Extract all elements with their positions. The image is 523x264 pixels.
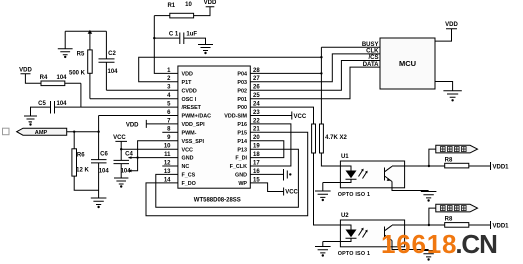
svg-text:16618.CN: 16618.CN (381, 229, 497, 259)
svg-text:VDD1: VDD1 (493, 164, 510, 170)
svg-text:C4: C4 (125, 152, 133, 158)
LED arrows U1 (359, 169, 368, 179)
svg-text:VDD: VDD (182, 72, 193, 78)
svg-text:10: 10 (164, 144, 171, 150)
svg-text:WT588D08-28SS: WT588D08-28SS (194, 198, 241, 204)
resistor 4.7K A (to U2) (312, 124, 341, 225)
svg-text:R1: R1 (167, 3, 175, 9)
svg-text:P15: P15 (237, 130, 247, 136)
svg-text:26: 26 (253, 85, 260, 91)
svg-text:C2: C2 (108, 51, 116, 57)
svg-text:NC: NC (182, 164, 190, 170)
svg-text:18: 18 (253, 152, 260, 158)
svg-text:104: 104 (121, 168, 132, 174)
MCU box (380, 38, 435, 89)
svg-text:MCU: MCU (399, 59, 416, 68)
svg-text:VDD_SPI: VDD_SPI (182, 122, 206, 128)
svg-text:19: 19 (253, 144, 260, 150)
resistor R6 12K (72, 132, 99, 191)
svg-text:WP: WP (238, 181, 247, 187)
svg-text:GND: GND (182, 156, 194, 162)
svg-text:16: 16 (253, 169, 260, 175)
svg-text:VDD: VDD (126, 122, 139, 128)
port VCC (pin23) (250, 112, 291, 120)
ground (U2 LED) (315, 242, 331, 253)
svg-text:14: 14 (164, 177, 171, 183)
overline for CS (369, 53, 379, 55)
svg-text:/CS: /CS (368, 55, 378, 61)
capacitor C1 (154, 33, 205, 45)
svg-text:P16: P16 (237, 122, 247, 128)
svg-text:P13: P13 (237, 147, 247, 153)
port VDD1 (U1) (490, 162, 492, 170)
wire P16 (pin22) to F_CLK (pin17) (250, 124, 291, 166)
svg-text:OSC I: OSC I (182, 97, 197, 103)
svg-text:27: 27 (253, 76, 260, 82)
svg-text:R8: R8 (445, 217, 453, 223)
IC U3 WT588D08-28SS pin numbers and labels (164, 68, 261, 184)
phototransistor U2 (385, 225, 429, 250)
svg-text:P02: P02 (237, 88, 247, 94)
LED U1 (323, 166, 357, 183)
resistor R4 (41, 81, 81, 86)
svg-text:104: 104 (99, 168, 110, 174)
svg-text:P01: P01 (237, 97, 247, 103)
power symbol VDD (reset circuit) (21, 74, 42, 84)
svg-text:104: 104 (56, 101, 67, 107)
svg-text:VDD: VDD (204, 0, 217, 6)
svg-text:F_DO: F_DO (182, 181, 196, 187)
svg-text:P14: P14 (237, 139, 247, 145)
svg-text:13: 13 (164, 169, 171, 175)
selection handle square (3, 128, 10, 135)
svg-text:OPTO ISO 1: OPTO ISO 1 (338, 251, 370, 257)
svg-text:VDD: VDD (445, 22, 458, 28)
resistor R1 (154, 13, 193, 18)
svg-text:C5: C5 (38, 101, 46, 107)
wire P00 (pin24) to opto resistor (250, 107, 313, 124)
svg-text:28: 28 (253, 68, 260, 74)
capacitor on GND (pin16) (250, 169, 287, 181)
svg-text:U1: U1 (341, 154, 349, 160)
port VDD1 (U2) (490, 221, 492, 229)
svg-text:1uF: 1uF (186, 31, 197, 37)
resistor R5 500K (88, 30, 93, 99)
svg-text:R5: R5 (77, 51, 85, 57)
port VDD (pin7) (146, 120, 178, 128)
net flag (U1 output label) (429, 145, 478, 166)
opto labels (338, 192, 370, 257)
svg-text:OPTO ISO 1: OPTO ISO 1 (338, 192, 370, 198)
svg-text:20: 20 (253, 135, 260, 141)
pin stub NC (pin12) (162, 165, 178, 167)
svg-text:R6: R6 (77, 153, 85, 159)
resistor 4.7K B (to U1) (320, 124, 341, 166)
svg-text:22: 22 (253, 118, 260, 124)
svg-text:F_CS: F_CS (182, 173, 196, 179)
wire CVDD (pin3) (106, 89, 177, 91)
wire R4 to /RESET node (80, 83, 82, 107)
svg-text:12 K: 12 K (76, 168, 89, 174)
wire VSS_SPI (pin9) and GND (pin11) (129, 141, 178, 171)
svg-text:P00: P00 (237, 105, 247, 111)
wire osc top rail (65, 30, 106, 32)
svg-text:VCC: VCC (182, 147, 193, 153)
capacitor C6 (91, 116, 107, 163)
svg-text:DATA: DATA (363, 62, 379, 68)
pin stub PWM- (pin8) (162, 131, 178, 133)
svg-text:VCC: VCC (285, 189, 298, 195)
svg-text:VDD-SIM: VDD-SIM (224, 114, 247, 120)
ground (R6/C6) (91, 163, 107, 205)
svg-text:CVDD: CVDD (182, 88, 197, 94)
svg-text:P04: P04 (237, 72, 247, 78)
svg-text:25: 25 (253, 93, 260, 99)
svg-text:P03: P03 (237, 80, 247, 86)
LED U2 (323, 225, 357, 242)
resistor R8 (U1 pullup) (445, 163, 469, 168)
svg-text:BUSY: BUSY (362, 42, 379, 48)
net flag (U2 output label) (429, 204, 478, 225)
power symbol VCC (C4) (115, 141, 127, 160)
wire F_CS (pin13) loop to P13 (156, 149, 299, 207)
ground (U1 emitter) (421, 192, 437, 198)
IC U3 WT588D08-28SS body (178, 66, 250, 188)
svg-text:AMP: AMP (35, 130, 48, 136)
capacitor C2 (99, 31, 115, 90)
svg-text:500 K: 500 K (69, 70, 86, 76)
wire busy net down to opto resistor (320, 57, 322, 124)
wire VCC to pin10 (121, 148, 178, 150)
svg-text:VCC: VCC (294, 114, 307, 120)
net flag AMP (17, 122, 99, 135)
wire P04/BUSY (pin28) (250, 72, 321, 74)
svg-text:F_DI: F_DI (235, 156, 247, 162)
svg-text:11: 11 (164, 152, 171, 158)
wire U2 output (405, 224, 491, 226)
capacitor C4 (114, 160, 130, 178)
svg-text:10: 10 (185, 2, 192, 8)
ground (U2 emitter) (421, 251, 437, 257)
ground (U1 LED) (315, 183, 331, 198)
wire F_DO (pin14) loop to P15 (146, 132, 308, 215)
wire P03/CLK (pin27) (250, 54, 380, 82)
wire /RESET (pin5) (81, 106, 178, 108)
svg-text:VCC: VCC (113, 135, 126, 141)
wire OSCI (pin4) (90, 98, 178, 100)
svg-text:C6: C6 (100, 152, 108, 158)
svg-text:VSS_SPI: VSS_SPI (182, 139, 205, 145)
wire P1T (pin2) long run to busy net (139, 57, 322, 82)
optocoupler U2 body (340, 220, 404, 247)
svg-text:15: 15 (253, 177, 260, 183)
ground (oscillator net) (58, 31, 73, 55)
svg-text:PWM+/DAC: PWM+/DAC (182, 114, 212, 120)
node junction dots (29, 37, 454, 261)
wire VDD vertical to pin1 (154, 16, 178, 74)
wire P14 (pin20) to F_DI (pin18) (250, 141, 283, 158)
ground (MCU) (435, 82, 462, 98)
power symbol VDD (top) (194, 7, 215, 16)
optocoupler U1 body (340, 161, 404, 188)
ground (C1) (198, 45, 213, 51)
capacitor C5 (31, 101, 81, 116)
svg-text:R8: R8 (445, 158, 453, 164)
svg-text:/RESET: /RESET (182, 105, 202, 111)
wire P01/DATA (pin25) (250, 67, 380, 99)
svg-text:104: 104 (107, 69, 118, 75)
svg-text:17: 17 (253, 160, 260, 166)
svg-text:23: 23 (253, 110, 260, 116)
svg-text:PWM-: PWM- (182, 130, 197, 136)
power symbol VDD (MCU) (435, 29, 457, 41)
svg-text:VDD: VDD (19, 67, 32, 73)
svg-text:F_CLK: F_CLK (230, 164, 247, 170)
svg-text:P1T: P1T (182, 80, 193, 86)
svg-text:C 1: C 1 (169, 31, 179, 37)
svg-text:U2: U2 (341, 213, 349, 219)
port VCC (pin15 WP) (250, 183, 283, 196)
svg-text:104: 104 (56, 75, 67, 81)
svg-text:21: 21 (253, 127, 260, 133)
ground (C4) (114, 178, 128, 184)
ground (C5) (24, 116, 37, 122)
wire P02//CS (pin26) (250, 61, 380, 91)
svg-text:12: 12 (164, 160, 171, 166)
wire U1 output (405, 165, 491, 167)
wire PWM+/DAC (pin6) (99, 115, 178, 117)
phototransistor U1 (385, 166, 429, 191)
svg-text:R4: R4 (40, 75, 48, 81)
svg-text:GND: GND (235, 173, 247, 179)
LED arrows U2 (359, 228, 368, 238)
net flag glyphs U1 (441, 147, 467, 211)
svg-text:24: 24 (253, 102, 260, 108)
MCU signal labels (362, 42, 379, 68)
svg-text:4.7K X2: 4.7K X2 (325, 135, 347, 141)
wire BUSY to MCU (321, 47, 380, 57)
resistor R8 (U2 pullup) (445, 223, 469, 228)
